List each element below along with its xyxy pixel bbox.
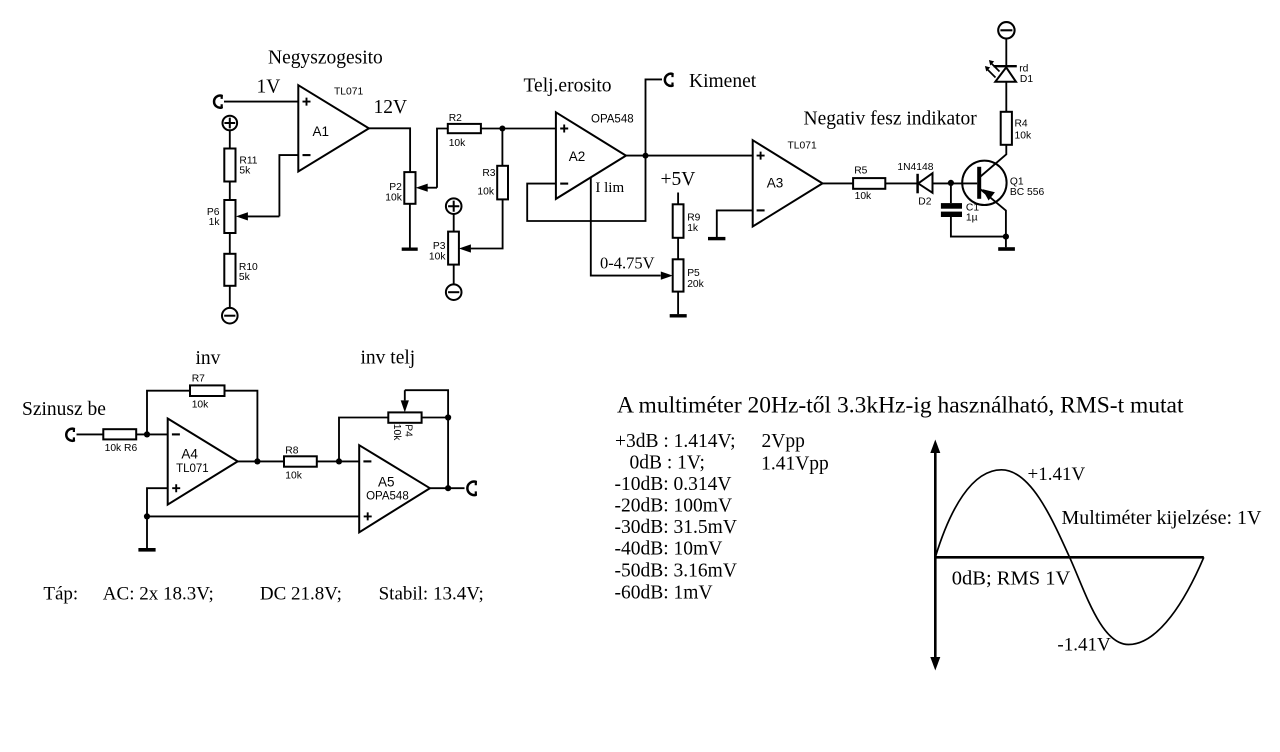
op-amp A1 bbox=[298, 85, 369, 171]
svg-text:5k: 5k bbox=[239, 165, 251, 176]
svg-text:10k: 10k bbox=[391, 424, 402, 441]
junction node P4 right bbox=[445, 414, 451, 420]
svg-text:R4: R4 bbox=[1015, 119, 1028, 130]
diode D2 1N4148 bbox=[897, 162, 933, 208]
transistor Q1 BC556 bbox=[962, 145, 1044, 237]
svg-text:P4: P4 bbox=[402, 424, 413, 437]
svg-text:-40dB: 10mV: -40dB: 10mV bbox=[615, 538, 723, 559]
svg-text:-10dB: 0.314V: -10dB: 0.314V bbox=[615, 474, 732, 495]
svg-text:12V: 12V bbox=[374, 97, 408, 118]
connector Szinusz input bbox=[66, 429, 74, 441]
svg-text:TL071: TL071 bbox=[334, 87, 363, 98]
wire P4 right terminal bbox=[422, 417, 449, 419]
resistor R7 bbox=[190, 374, 225, 411]
svg-text:TL071: TL071 bbox=[788, 141, 817, 152]
svg-text:0dB : 1V;: 0dB : 1V; bbox=[630, 453, 705, 474]
svg-text:AC: 2x 18.3V;: AC: 2x 18.3V; bbox=[103, 584, 214, 605]
svg-text:TL071: TL071 bbox=[176, 463, 209, 475]
svg-text:BC 556: BC 556 bbox=[1010, 187, 1045, 198]
svg-text:OPA548: OPA548 bbox=[366, 491, 409, 503]
svg-text:Kimenet: Kimenet bbox=[689, 71, 757, 92]
wire R6 to A4 minus bbox=[136, 433, 168, 435]
svg-text:P2: P2 bbox=[389, 182, 402, 193]
svg-text:10k: 10k bbox=[477, 186, 494, 197]
svg-text:-60dB: 1mV: -60dB: 1mV bbox=[615, 583, 713, 604]
junction node A5 out bbox=[445, 485, 451, 491]
feedback wire A2 minus loop bbox=[527, 156, 645, 221]
svg-text:A5: A5 bbox=[378, 474, 395, 489]
sine graph vertical axis bbox=[930, 440, 940, 671]
potentiometer P2 bbox=[385, 172, 437, 204]
svg-text:1V: 1V bbox=[257, 76, 281, 97]
sine graph horizontal axis bbox=[935, 556, 1204, 559]
wire R5 to D2 bbox=[885, 182, 917, 184]
svg-text:Negyszogesito: Negyszogesito bbox=[268, 48, 383, 69]
wire P6 to R10 bbox=[229, 233, 231, 254]
svg-text:R2: R2 bbox=[449, 113, 462, 124]
wire R4 to LED D1 bbox=[1005, 82, 1007, 112]
wire D2 to Q1 base bbox=[933, 182, 978, 184]
resistor R10 bbox=[224, 254, 258, 286]
wire plus to P3 bbox=[453, 214, 455, 232]
wire D1 to minus symbol bbox=[1005, 39, 1007, 66]
svg-text:1k: 1k bbox=[687, 223, 699, 234]
svg-text:10k: 10k bbox=[449, 138, 466, 149]
svg-text:A2: A2 bbox=[569, 149, 586, 164]
wire A3 output to R5 bbox=[823, 182, 854, 184]
wire node to R3 bbox=[501, 129, 503, 166]
svg-text:10k: 10k bbox=[855, 191, 872, 202]
resistor R3 bbox=[477, 166, 508, 200]
plus supply symbol bbox=[223, 116, 238, 131]
capacitor C1 bbox=[941, 183, 979, 223]
svg-text:OPA548: OPA548 bbox=[591, 114, 634, 126]
svg-text:1k: 1k bbox=[209, 217, 221, 228]
svg-text:D1: D1 bbox=[1020, 74, 1033, 85]
connector output bottom bbox=[467, 482, 475, 496]
wiper arrow of P3 bbox=[459, 244, 471, 252]
potentiometer P4 bbox=[388, 390, 421, 441]
resistor R11 bbox=[224, 149, 257, 182]
junction node A4 out bbox=[254, 458, 260, 464]
svg-text:rd: rd bbox=[1019, 64, 1028, 75]
svg-text:A multiméter 20Hz-től 3.3kHz-i: A multiméter 20Hz-től 3.3kHz-ig használh… bbox=[617, 393, 1184, 419]
svg-text:0dB; RMS 1V: 0dB; RMS 1V bbox=[952, 568, 1071, 590]
wire A1 output to P2 bbox=[369, 128, 410, 172]
wire P2 wiper up to R2 bbox=[437, 129, 448, 188]
junction node R8/P4 bbox=[336, 458, 342, 464]
svg-text:Negativ fesz indikator: Negativ fesz indikator bbox=[804, 109, 978, 130]
LED D1 bbox=[985, 60, 1033, 85]
potentiometer P6 bbox=[207, 200, 280, 233]
svg-text:10k: 10k bbox=[192, 399, 209, 410]
svg-text:20k: 20k bbox=[687, 279, 704, 290]
svg-text:I lim: I lim bbox=[595, 180, 624, 196]
resistor R4 bbox=[1001, 112, 1032, 145]
svg-text:R5: R5 bbox=[854, 166, 867, 177]
connector Kimenet output bbox=[665, 74, 673, 86]
svg-text:10k: 10k bbox=[385, 192, 402, 203]
wire +5V to R9 bbox=[677, 193, 679, 205]
svg-text:Q1: Q1 bbox=[1010, 176, 1024, 187]
wire node to ground bbox=[1005, 237, 1007, 248]
connector J1 input bbox=[214, 96, 222, 108]
junction node R2/R3 bbox=[499, 126, 505, 132]
svg-text:inv: inv bbox=[196, 348, 221, 369]
wire A2 output to A3 plus bbox=[626, 155, 753, 157]
resistor R6 bbox=[103, 429, 137, 454]
wire P2 bottom to ground bbox=[409, 204, 411, 248]
wiper arrow of P5 bbox=[661, 272, 673, 280]
wire I lim to P5 wiper bbox=[591, 178, 661, 276]
svg-text:Multiméter kijelzése: 1V: Multiméter kijelzése: 1V bbox=[1062, 507, 1262, 529]
svg-text:Táp:: Táp: bbox=[43, 584, 78, 605]
svg-text:2Vpp: 2Vpp bbox=[762, 431, 805, 452]
wire R7 to A4 output bbox=[225, 391, 258, 462]
svg-text:R9: R9 bbox=[687, 213, 700, 224]
wire A5 output to connector bbox=[430, 487, 465, 489]
svg-text:5k: 5k bbox=[239, 272, 251, 283]
svg-text:DC 21.8V;: DC 21.8V; bbox=[260, 584, 342, 605]
svg-text:Telj.erosito: Telj.erosito bbox=[524, 76, 612, 97]
op-amp A4 bbox=[168, 419, 238, 505]
wire R3 to P3 wiper bbox=[471, 199, 503, 248]
ground under P2 bbox=[402, 248, 418, 251]
svg-text:1.41Vpp: 1.41Vpp bbox=[761, 454, 829, 475]
svg-text:Szinusz be: Szinusz be bbox=[22, 399, 106, 420]
wire R10 to minus symbol bbox=[229, 286, 231, 308]
svg-text:Stabil: 13.4V;: Stabil: 13.4V; bbox=[379, 584, 484, 605]
svg-text:+3dB : 1.414V;: +3dB : 1.414V; bbox=[615, 431, 736, 452]
wire P6 wiper to A1 minus bbox=[279, 155, 298, 216]
wire node up to P4 bbox=[339, 418, 388, 462]
junction node ground wire bbox=[144, 513, 150, 519]
svg-text:10k R6: 10k R6 bbox=[105, 443, 138, 454]
svg-text:A4: A4 bbox=[181, 447, 198, 462]
svg-text:1µ: 1µ bbox=[966, 212, 978, 223]
svg-text:R7: R7 bbox=[192, 374, 205, 385]
wire input to R6 bbox=[77, 433, 104, 435]
wire A4 plus down and across to A5 plus bbox=[147, 488, 359, 548]
minus supply symbol below P3 bbox=[446, 284, 462, 300]
svg-text:A3: A3 bbox=[767, 175, 784, 190]
junction node base/C1 bbox=[948, 180, 954, 186]
svg-text:P3: P3 bbox=[433, 241, 446, 252]
resistor R8 bbox=[284, 445, 317, 481]
wire node up to R7 bbox=[147, 391, 190, 435]
potentiometer P5 bbox=[673, 259, 705, 291]
svg-text:inv telj: inv telj bbox=[361, 348, 416, 369]
sine wave curve bbox=[935, 470, 1204, 645]
junction node A2 output bbox=[643, 153, 649, 159]
svg-text:P5: P5 bbox=[687, 268, 700, 279]
op-amp A5 bbox=[359, 445, 430, 532]
svg-text:+1.41V: +1.41V bbox=[1028, 464, 1086, 485]
label Tap row bbox=[43, 584, 483, 605]
ground under Q1 bbox=[998, 247, 1015, 251]
wire A3 minus to ground bbox=[717, 210, 753, 237]
junction node R6/R7 bbox=[144, 431, 150, 437]
wire R2 to A2 plus bbox=[481, 128, 556, 130]
svg-text:A1: A1 bbox=[313, 124, 330, 139]
svg-text:10k: 10k bbox=[285, 471, 302, 482]
resistor R2 bbox=[448, 113, 481, 149]
plus supply symbol above P3 bbox=[446, 198, 462, 214]
svg-text:1N4148: 1N4148 bbox=[897, 162, 933, 173]
svg-text:-20dB: 100mV: -20dB: 100mV bbox=[615, 495, 733, 516]
wire R11 to P6 bbox=[229, 182, 231, 201]
op-amp A2 bbox=[556, 112, 626, 199]
ground under P5 bbox=[670, 314, 687, 317]
resistor R5 bbox=[853, 166, 885, 202]
svg-text:10k: 10k bbox=[1015, 130, 1032, 141]
svg-text:-30dB: 31.5mV: -30dB: 31.5mV bbox=[615, 517, 737, 538]
svg-text:-1.41V: -1.41V bbox=[1057, 635, 1111, 656]
wire input to A1 + bbox=[224, 101, 298, 103]
wire P4 wiper loop to output bbox=[405, 390, 448, 488]
wire plus to R11 bbox=[229, 130, 231, 148]
resistor R9 bbox=[673, 204, 701, 238]
svg-text:D2: D2 bbox=[918, 197, 931, 208]
ground under A4 bbox=[138, 548, 155, 552]
svg-text:-50dB: 3.16mV: -50dB: 3.16mV bbox=[615, 561, 737, 582]
ground at A3 minus bbox=[708, 237, 725, 240]
wire output node up to Kimenet connector bbox=[646, 79, 663, 155]
svg-text:R3: R3 bbox=[482, 168, 495, 179]
wire R9 to P5 bbox=[677, 238, 679, 259]
svg-text:+5V: +5V bbox=[661, 169, 696, 190]
svg-text:10k: 10k bbox=[429, 252, 446, 263]
minus supply symbol bbox=[222, 308, 238, 324]
svg-text:R8: R8 bbox=[285, 445, 298, 456]
minus supply symbol top right bbox=[998, 22, 1014, 38]
wire R8 to A5 minus bbox=[317, 460, 359, 462]
junction node emitter/ground bbox=[1003, 234, 1009, 240]
potentiometer P3 bbox=[429, 232, 459, 265]
wire A4 output to R8 bbox=[238, 460, 284, 462]
wire P3 to minus symbol bbox=[453, 265, 455, 285]
svg-text:0-4.75V: 0-4.75V bbox=[600, 254, 655, 273]
op-amp A3 bbox=[753, 140, 823, 226]
dB table bbox=[615, 431, 829, 604]
wire C1 to emitter node bbox=[951, 217, 1006, 237]
wire P5 to ground bbox=[677, 292, 679, 315]
